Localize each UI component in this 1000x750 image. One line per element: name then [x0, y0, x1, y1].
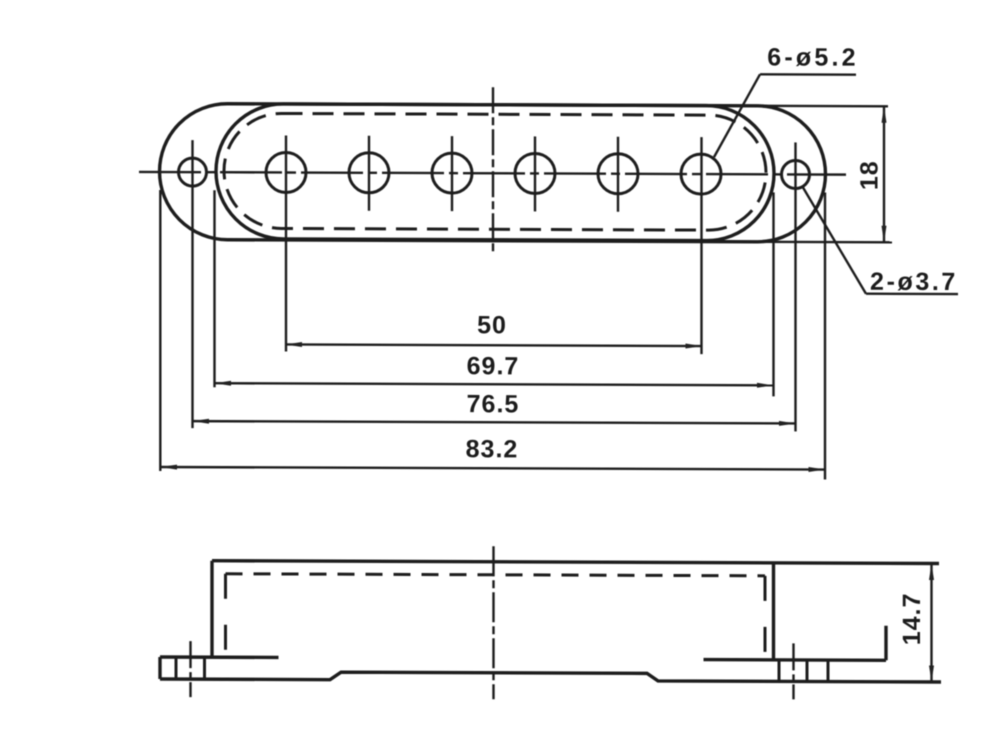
svg-text:14.7: 14.7	[898, 592, 926, 645]
svg-text:76.5: 76.5	[467, 390, 520, 418]
extension line inner left (69.7)	[213, 190, 215, 387]
svg-text:69.7: 69.7	[467, 352, 520, 380]
pole hole 4	[515, 153, 555, 193]
pole hole 3	[432, 153, 472, 193]
mounting hole left (phi 3.7)	[179, 158, 207, 186]
right mounting hole centerline + extension to 76.5 dim	[794, 142, 796, 431]
cover top outline (inner stadium)	[216, 104, 774, 241]
side view top line + extension for 14.7	[212, 561, 939, 564]
extension lines for 18 dim	[762, 105, 888, 108]
76.5 dimension line	[193, 421, 796, 423]
hole 6 centerline + extension to 50 dim	[700, 137, 702, 354]
69.7 dimension line	[215, 383, 774, 385]
hidden left wall	[224, 574, 227, 651]
pole hole 5	[598, 154, 638, 194]
extension line inner right (69.7)	[772, 192, 774, 396]
pole hole 2	[349, 153, 389, 193]
hole 5 vertical centerline	[617, 137, 619, 212]
left ear boss lines	[175, 657, 178, 679]
extension line outer left (83.2)	[159, 190, 161, 471]
hidden inner wall (dashed stadium)	[224, 113, 766, 230]
pole hole 1 (phi 5.2)	[266, 152, 306, 192]
hole 2 vertical centerline	[368, 136, 370, 211]
18 dimension line	[883, 106, 885, 242]
14.7 dimension line	[930, 563, 932, 682]
side view vertical centerline	[492, 546, 494, 699]
hidden top line (inside cover)	[226, 574, 766, 576]
left ear ledge	[160, 655, 279, 659]
right ledge end vertical	[884, 626, 887, 661]
hidden right wall	[764, 576, 767, 655]
mounting hole right (phi 3.7)	[782, 160, 810, 188]
horizontal centerline of top view	[139, 172, 846, 175]
pole hole 6	[681, 154, 721, 194]
leader for 2-phi3.7	[803, 187, 866, 293]
hole 3 vertical centerline	[451, 136, 453, 211]
left ear left edge	[158, 657, 161, 679]
left ear screw centerline	[189, 641, 191, 697]
50 dimension line	[286, 344, 703, 346]
bottom outline with raised middle	[160, 672, 941, 682]
side view right edge	[772, 563, 775, 660]
side view left edge	[210, 561, 213, 658]
hole 4 vertical centerline	[534, 136, 536, 211]
left mounting hole centerline + extension to 76.5 dim	[191, 140, 193, 428]
svg-text:2-ø3.7: 2-ø3.7	[870, 268, 958, 296]
right ear ledge	[704, 658, 887, 662]
extension line outer right (83.2)	[824, 193, 826, 480]
svg-text:6-ø5.2: 6-ø5.2	[767, 43, 858, 71]
leader for 6-phi5.2	[714, 74, 760, 157]
83.2 dimension line	[160, 467, 825, 470]
svg-text:50: 50	[477, 311, 507, 339]
outer base plate outline (top view stadium)	[160, 103, 826, 242]
vertical centerline of top view	[492, 87, 494, 254]
svg-text:18: 18	[856, 160, 884, 190]
right ear screw centerline	[792, 643, 794, 699]
hole 1 centerline + extension to 50 dim	[285, 135, 287, 351]
svg-text:83.2: 83.2	[466, 435, 519, 463]
right ear boss lines	[778, 660, 781, 682]
